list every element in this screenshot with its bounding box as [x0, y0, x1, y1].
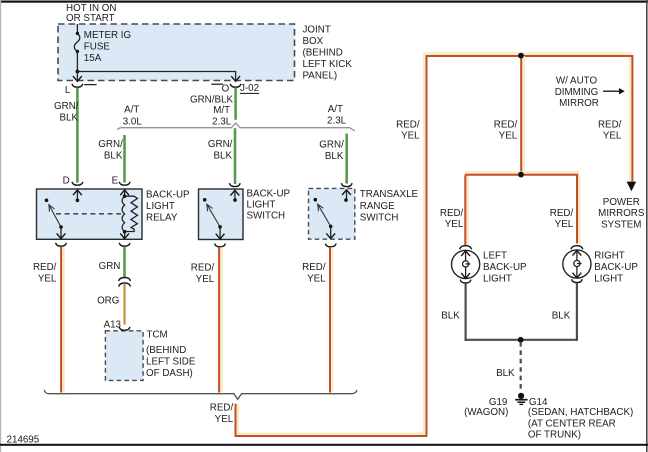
svg-text:YEL: YEL: [38, 274, 57, 285]
wire RED/YEL: brace tip along bottom and up right side to top rail: [238, 54, 631, 434]
svg-text:BLK: BLK: [441, 310, 460, 321]
bottom frame bar: [0, 444, 648, 446]
svg-text:G19: G19: [489, 397, 508, 408]
relay internals: pin E to coil: [120, 190, 129, 195]
fuse F1 METER IG FUSE 15A: [74, 33, 79, 51]
node: junction below fuse: [76, 70, 80, 74]
wire RED/YEL: drop to right back-up light: [578, 176, 581, 243]
svg-text:G14: G14: [529, 397, 548, 408]
svg-text:GRN/: GRN/: [208, 139, 233, 150]
connector at relay pin E: [119, 182, 130, 185]
connector below transaxle range switch: [325, 244, 336, 247]
connector at transaxle range switch pin: [341, 183, 352, 186]
svg-text:RIGHT: RIGHT: [594, 250, 624, 261]
svg-text:BACK-UP: BACK-UP: [594, 262, 638, 273]
svg-text:RELAY: RELAY: [146, 212, 178, 223]
options separator line A/T 3.0L / M/T 2.3L / A/T 2.3L: [118, 123, 355, 131]
svg-text:LIGHT: LIGHT: [483, 273, 512, 284]
svg-text:METER IG: METER IG: [84, 30, 131, 41]
svg-text:OF TRUNK): OF TRUNK): [528, 430, 581, 441]
svg-text:DIMMING: DIMMING: [555, 87, 599, 98]
relay internals: pin D contact: [73, 190, 82, 195]
svg-text:TCM: TCM: [147, 330, 168, 341]
svg-text:(BEHIND: (BEHIND: [146, 345, 186, 356]
svg-text:RED/: RED/: [598, 119, 622, 130]
svg-text:BLK: BLK: [496, 368, 515, 379]
svg-text:ORG: ORG: [97, 295, 119, 306]
wire RED/YEL: middle drop from top rail: [522, 56, 525, 174]
relay coil (arcs): [122, 196, 125, 232]
svg-text:OF DASH): OF DASH): [146, 368, 193, 379]
connector pin A13 on TCM: [119, 327, 130, 330]
svg-text:OR START: OR START: [66, 13, 115, 24]
node: lights rail junction: [518, 172, 524, 178]
svg-text:SWITCH: SWITCH: [360, 212, 399, 223]
svg-text:RED/: RED/: [33, 262, 57, 273]
wire BLK: right light to ground bus: [576, 283, 578, 341]
joint box J/B (dashed, behind left kick panel): [58, 24, 295, 81]
svg-text:2.3L: 2.3L: [327, 116, 347, 127]
switch box S2 TRANSAXLE RANGE SWITCH (dashed): [309, 188, 355, 239]
svg-text:(WAGON): (WAGON): [464, 407, 508, 418]
svg-text:GRN/: GRN/: [98, 139, 123, 150]
svg-text:FUSE: FUSE: [84, 41, 111, 52]
svg-text:LEFT SIDE: LEFT SIDE: [146, 356, 196, 367]
wire: fuse supply vertical in joint box: [76, 24, 78, 33]
svg-text:YEL: YEL: [445, 219, 464, 230]
svg-text:BLK: BLK: [325, 151, 344, 162]
svg-text:JOINT: JOINT: [303, 25, 331, 36]
svg-text:LIGHT: LIGHT: [594, 273, 623, 284]
wire BLK dashed: bus to ground: [520, 342, 522, 392]
svg-text:RED/: RED/: [550, 208, 574, 219]
svg-text:RED/: RED/: [210, 403, 234, 414]
svg-text:RED/: RED/: [396, 119, 420, 130]
svg-text:BLK: BLK: [59, 112, 78, 123]
module TCM (dashed): [105, 331, 143, 381]
arrow into pin L: [73, 76, 82, 81]
transaxle range switch internals: [342, 190, 351, 195]
svg-text:J-02: J-02: [240, 83, 259, 94]
connector below relay (RED/YEL out): [56, 243, 67, 246]
top frame bar: [0, 1, 648, 3]
svg-text:SYSTEM: SYSTEM: [601, 219, 641, 230]
svg-text:(BEHIND: (BEHIND: [303, 48, 343, 59]
svg-text:YEL: YEL: [499, 131, 518, 142]
switch box S1 BACK-UP LIGHT SWITCH: [199, 189, 244, 240]
svg-text:RANGE: RANGE: [360, 201, 395, 212]
svg-text:214695: 214695: [7, 435, 40, 446]
svg-text:YEL: YEL: [603, 131, 622, 142]
svg-text:BOX: BOX: [303, 36, 324, 47]
svg-text:RED/: RED/: [302, 262, 326, 273]
connector at relay pin D: [72, 182, 83, 185]
svg-text:RED/: RED/: [440, 208, 464, 219]
svg-text:RED/: RED/: [191, 263, 215, 274]
wire GRN/BLK: A/T 2.3L branch to transaxle range switch: [345, 134, 348, 184]
svg-text:M/T: M/T: [213, 105, 230, 116]
wire RED/YEL: transaxle range switch output down to brace: [331, 247, 334, 392]
left frame line: [0, 0, 1, 452]
svg-text:O: O: [222, 83, 230, 94]
svg-text:YEL: YEL: [555, 219, 574, 230]
svg-text:PANEL): PANEL): [303, 71, 338, 82]
svg-text:BLK: BLK: [213, 150, 232, 161]
svg-text:L: L: [65, 85, 71, 96]
arrow w/ auto dimming mirror: [603, 90, 620, 92]
svg-text:BLK: BLK: [552, 310, 571, 321]
connector pin L: [72, 84, 83, 87]
right frame line: [646, 0, 648, 452]
connector pin O (J-02): [230, 84, 241, 87]
ground G19/G14: [518, 393, 524, 399]
wire GRN/BLK: L down to relay pin D: [76, 88, 79, 183]
arrow to power mirrors system: [627, 182, 637, 192]
svg-text:LIGHT: LIGHT: [247, 199, 276, 210]
svg-text:W/ AUTO: W/ AUTO: [556, 76, 598, 87]
svg-text:YEL: YEL: [196, 274, 215, 285]
relay switch arm: [45, 199, 49, 203]
relay box U1 BACK-UP LIGHT RELAY: [37, 189, 143, 239]
lamp DS1 LEFT BACK-UP LIGHT: [460, 246, 472, 250]
wire RED/YEL: drop to left back-up light: [466, 176, 469, 245]
svg-text:POWER: POWER: [603, 197, 640, 208]
svg-text:TRANSAXLE: TRANSAXLE: [360, 189, 419, 200]
node: top rail junction: [518, 53, 524, 59]
connector below relay (GRN out): [119, 243, 130, 246]
svg-text:LEFT KICK: LEFT KICK: [303, 59, 353, 70]
svg-text:SWITCH: SWITCH: [247, 211, 286, 222]
svg-text:3.0L: 3.0L: [123, 117, 143, 128]
wire BLK: left light to ground bus: [465, 283, 467, 340]
wire: fuse output to junction: [76, 52, 78, 72]
svg-text:LEFT: LEFT: [483, 250, 507, 261]
wire BLK: ground bus: [465, 339, 579, 341]
svg-text:(SEDAN, HATCHBACK): (SEDAN, HATCHBACK): [528, 407, 633, 418]
relay coil output to bottom pin: [124, 232, 126, 239]
relay switch output to bottom pin: [60, 227, 62, 238]
lamp DS2 RIGHT BACK-UP LIGHT: [571, 246, 583, 250]
svg-text:GRN/: GRN/: [54, 101, 79, 112]
svg-text:D: D: [63, 175, 70, 186]
svg-text:BLK: BLK: [104, 150, 123, 161]
wire GRN/BLK: O down to options line: [234, 88, 237, 120]
svg-text:YEL: YEL: [307, 274, 326, 285]
relay coil resistor (zigzag): [125, 196, 138, 231]
svg-text:A/T: A/T: [124, 105, 139, 116]
wire: junction across to pin O: [77, 72, 235, 81]
svg-text:MIRRORS: MIRRORS: [598, 208, 645, 219]
svg-text:A/T: A/T: [328, 104, 343, 115]
svg-text:2.3L: 2.3L: [212, 117, 232, 128]
svg-text:A13: A13: [104, 319, 122, 330]
node: ground bus junction: [518, 337, 524, 343]
wire ORG: connector down to TCM pin A13: [123, 283, 125, 324]
svg-text:GRN/: GRN/: [319, 140, 344, 151]
wire GRN: relay output down to inline connector: [123, 247, 126, 278]
svg-text:E: E: [112, 175, 119, 186]
svg-text:LIGHT: LIGHT: [146, 201, 175, 212]
wire: junction down to pin L: [76, 72, 78, 81]
svg-text:GRN/BLK: GRN/BLK: [190, 94, 233, 105]
wire RED/YEL: back-up lights cross rail: [465, 171, 579, 174]
wire GRN/BLK: A/T 3.0L branch to relay pin E: [123, 135, 126, 183]
svg-text:BACK-UP: BACK-UP: [146, 189, 190, 200]
wire RED/YEL: relay output down to brace: [62, 247, 65, 393]
wire GRN/BLK: M/T 2.3L branch to back-up light switch: [234, 128, 237, 184]
back-up light switch internals: [231, 190, 240, 195]
svg-text:BACK-UP: BACK-UP: [483, 262, 527, 273]
svg-text:MIRROR: MIRROR: [559, 98, 599, 109]
svg-text:(AT CENTER REAR: (AT CENTER REAR: [528, 418, 616, 429]
svg-text:15A: 15A: [84, 53, 102, 64]
brace (wire gather): [44, 390, 357, 400]
svg-text:YEL: YEL: [401, 131, 420, 142]
wire RED/YEL: back-up light switch output down to brace: [220, 247, 223, 392]
connector below back-up light switch: [215, 244, 226, 247]
svg-text:BACK-UP: BACK-UP: [247, 188, 291, 199]
connector at back-up light switch pin: [229, 183, 240, 186]
svg-text:GRN: GRN: [99, 261, 121, 272]
relay actuator dashed link: [56, 213, 121, 215]
arrow into pin O: [231, 76, 240, 81]
inline connector halves GRN/ORG: [119, 278, 131, 282]
svg-text:RED/: RED/: [494, 119, 518, 130]
svg-text:YEL: YEL: [215, 414, 234, 425]
